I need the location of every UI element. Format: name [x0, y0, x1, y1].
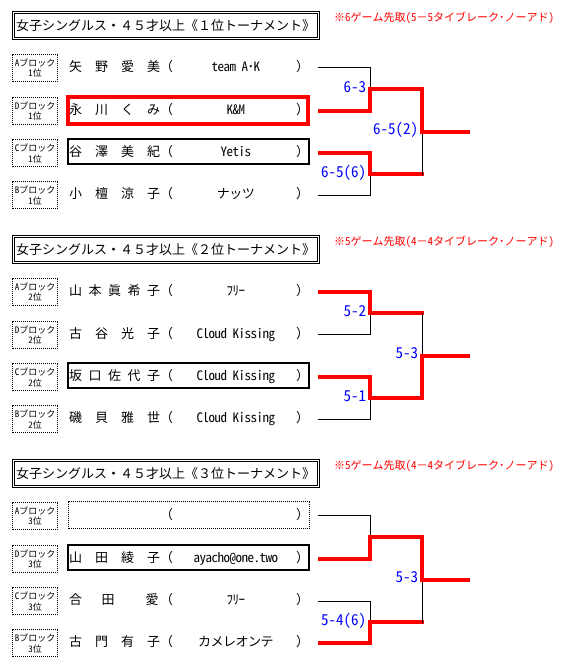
player name s2r2 — [69, 326, 160, 339]
wire final vertical — [422, 313, 423, 356]
player name s1r1 — [69, 59, 160, 72]
player name s3r2 — [69, 550, 160, 563]
finalist box black — [67, 138, 310, 165]
score match2 — [266, 388, 366, 403]
wire match1 out — [368, 311, 424, 315]
player name s1r2 — [69, 102, 160, 115]
score final — [318, 121, 418, 136]
block label B2位 s2r4 — [12, 405, 58, 433]
wire match2 out — [368, 396, 424, 400]
winner box red — [66, 95, 310, 126]
player name s3r3 — [69, 592, 160, 605]
finalist box black — [67, 544, 310, 571]
title box 3 — [12, 459, 320, 488]
wire final vertical — [420, 535, 424, 582]
score match1 — [266, 79, 366, 94]
wire row-line s1r4 — [318, 195, 371, 196]
wire row-line s3r4 — [318, 641, 372, 645]
wire match2 out — [368, 172, 424, 176]
block label A2位 s2r1 — [12, 278, 58, 306]
block label D2位 s2r2 — [12, 321, 58, 349]
block label C1位 s1r3 — [12, 139, 58, 167]
wire row-line s1r1 — [318, 67, 371, 68]
block label D3位 s3r2 — [12, 545, 58, 573]
empty dotted box — [68, 501, 310, 529]
wire match2 vertical — [368, 375, 372, 400]
wire match1 out — [368, 535, 424, 539]
wire row-line s2r1 — [318, 290, 372, 294]
block label A3位 s3r1 — [12, 502, 58, 530]
wire match1 vertical — [370, 67, 371, 89]
wire row-line s2r4 — [318, 419, 371, 420]
note 2 — [334, 236, 554, 247]
block label B3位 s3r4 — [12, 629, 58, 657]
finalist box black — [67, 362, 310, 389]
wire match2 vertical — [370, 601, 371, 623]
score final — [318, 569, 418, 584]
player name s2r4 — [69, 410, 160, 423]
wire final out — [420, 354, 470, 358]
player name s1r4 — [69, 186, 160, 199]
score final — [318, 345, 418, 360]
wire final vertical — [420, 87, 424, 134]
player name s1r3 — [69, 144, 160, 157]
player name s2r1 — [69, 283, 160, 296]
score match2 — [266, 612, 366, 627]
block label B1位 s1r4 — [12, 181, 58, 209]
wire match2 out — [368, 620, 424, 624]
wire match2 vertical — [368, 151, 372, 176]
block label D1位 s1r2 — [12, 97, 58, 125]
player name s2r3 — [69, 368, 160, 381]
wire final out — [420, 130, 470, 134]
wire row-line s2r2 — [318, 334, 371, 335]
wire row-line s3r3 — [318, 601, 371, 602]
wire match1 vertical — [370, 515, 371, 537]
note 1 — [334, 12, 554, 23]
wire final out — [420, 578, 470, 582]
wire match1 out — [368, 87, 424, 91]
block label C3位 s3r3 — [12, 587, 58, 615]
note 3 — [334, 460, 554, 471]
score match1 — [266, 303, 366, 318]
block label A1位 s1r1 — [12, 54, 58, 82]
score match2 — [266, 164, 366, 179]
player name s3r1 — [160, 507, 173, 520]
title box 1 — [12, 11, 320, 40]
player name s3r4 — [69, 634, 160, 647]
wire row-line s1r2 — [318, 109, 372, 113]
title box 2 — [12, 235, 320, 264]
wire match1 vertical — [368, 290, 372, 316]
wire row-line s2r3 — [318, 375, 372, 379]
wire row-line s1r3 — [318, 151, 372, 155]
wire row-line s3r2 — [318, 557, 372, 561]
wire row-line s3r1 — [318, 515, 371, 516]
block label C2位 s2r3 — [12, 363, 58, 391]
